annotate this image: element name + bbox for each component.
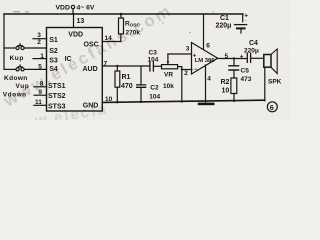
svg-text:R2: R2 (221, 79, 230, 86)
svg-text:4: 4 (207, 75, 211, 82)
svg-text:S1: S1 (49, 37, 58, 44)
svg-text:C3: C3 (149, 49, 158, 56)
svg-text:3: 3 (186, 45, 190, 52)
svg-text:R1: R1 (122, 74, 131, 81)
svg-text:Kup: Kup (10, 55, 24, 62)
svg-text:7: 7 (104, 60, 108, 67)
svg-text:220μ: 220μ (216, 22, 232, 29)
svg-text:13: 13 (77, 18, 85, 25)
svg-text:11: 11 (35, 99, 42, 106)
svg-text:STS3: STS3 (48, 104, 66, 111)
svg-text:VDD: VDD (68, 31, 83, 38)
svg-text:S4: S4 (49, 66, 58, 73)
svg-text:470: 470 (121, 83, 133, 90)
svg-text:270k: 270k (126, 29, 141, 36)
svg-text:S2: S2 (49, 48, 58, 55)
svg-text:2: 2 (184, 70, 188, 77)
svg-text:2: 2 (37, 39, 41, 46)
svg-text:10k: 10k (163, 83, 174, 90)
svg-text:C4: C4 (249, 40, 258, 47)
svg-text:C2: C2 (150, 85, 159, 92)
svg-text:8: 8 (40, 81, 44, 88)
svg-text:+: + (193, 54, 197, 60)
svg-text:+: + (244, 12, 248, 19)
svg-text:Vup: Vup (16, 83, 30, 90)
svg-text:6: 6 (206, 42, 210, 49)
svg-text:Vdown: Vdown (3, 91, 27, 98)
svg-text:5: 5 (38, 64, 42, 71)
svg-text:VDD: VDD (56, 5, 70, 12)
svg-text:+: + (240, 54, 244, 61)
svg-text:220μ: 220μ (244, 48, 259, 55)
svg-text:GND: GND (83, 103, 99, 110)
svg-text:C5: C5 (241, 67, 250, 74)
svg-text:473: 473 (241, 76, 252, 83)
svg-text:OSC: OSC (84, 42, 99, 49)
svg-text:C1: C1 (220, 15, 229, 22)
svg-text:10: 10 (222, 88, 230, 95)
svg-text:−: − (194, 67, 198, 73)
svg-text:9: 9 (38, 89, 42, 96)
svg-text:ROSC: ROSC (125, 21, 140, 28)
svg-text:6: 6 (270, 103, 274, 112)
svg-text:4~ 6V: 4~ 6V (77, 5, 95, 12)
svg-text:10: 10 (105, 96, 113, 103)
svg-text:STS2: STS2 (48, 93, 66, 100)
svg-text:S3: S3 (49, 58, 58, 65)
svg-text:5: 5 (225, 53, 229, 60)
svg-text:Kdown: Kdown (4, 75, 28, 82)
svg-text:104: 104 (148, 56, 159, 63)
svg-text:IC: IC (65, 56, 72, 63)
svg-text:14: 14 (105, 35, 113, 42)
svg-text:SPK: SPK (268, 79, 282, 86)
svg-text:AUD: AUD (83, 66, 98, 73)
svg-text:STS1: STS1 (48, 83, 66, 90)
svg-text:1: 1 (40, 53, 44, 60)
svg-text:LM 386: LM 386 (195, 58, 216, 64)
svg-text:104: 104 (149, 94, 160, 101)
svg-text:VR: VR (164, 71, 173, 78)
